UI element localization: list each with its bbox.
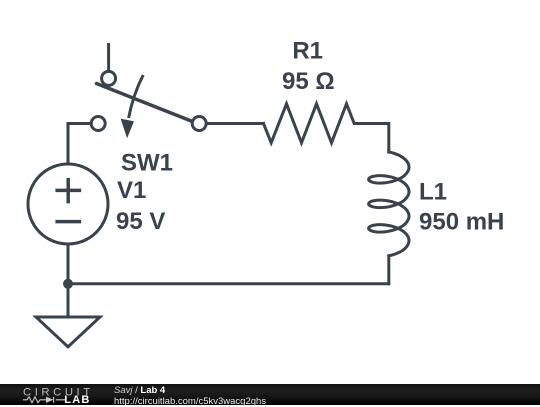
svg-text:L1: L1: [419, 178, 447, 205]
svg-text:LAB: LAB: [64, 394, 90, 405]
svg-text:SW1: SW1: [121, 150, 173, 177]
svg-text:R1: R1: [292, 37, 323, 64]
svg-text:95 V: 95 V: [116, 208, 165, 235]
svg-text:V1: V1: [117, 177, 146, 204]
svg-text:95 Ω: 95 Ω: [282, 68, 335, 95]
svg-text:950 mH: 950 mH: [419, 208, 504, 235]
